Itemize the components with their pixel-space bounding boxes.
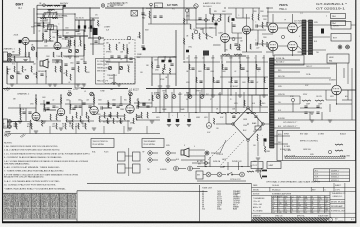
- title block left text: [253, 184, 341, 213]
- capacitor C31: [186, 50, 189, 53]
- capacitor C17: [52, 106, 55, 107]
- tube V1 preamp 7025: [22, 37, 29, 44]
- resistor R16: [149, 11, 150, 18]
- wire: [139, 106, 152, 108]
- resistor R62: [184, 18, 185, 24]
- blank panel left rule: [76, 191, 78, 222]
- wire plug center: [128, 148, 130, 176]
- wire: [268, 22, 297, 24]
- wire: [257, 118, 259, 126]
- wire: [292, 51, 294, 56]
- wire plate riser: [35, 95, 37, 113]
- wire: [224, 42, 226, 52]
- resistor R40: [56, 114, 57, 120]
- junction: [273, 63, 274, 64]
- junction: [93, 94, 94, 95]
- wire: [65, 103, 94, 105]
- wire bus: [3, 61, 35, 63]
- wire: [3, 61, 35, 63]
- parts list column rule: [12, 193, 14, 219]
- jack J4 input: [8, 125, 12, 129]
- resistor R19: [70, 104, 71, 109]
- wire: [274, 59, 300, 61]
- footswitch plug body 4: [133, 164, 141, 173]
- capacitor C43: [232, 25, 235, 26]
- wire: [257, 30, 259, 44]
- capacitor C16: [64, 64, 67, 65]
- wire: [252, 20, 254, 30]
- output transformer T1 primary: [302, 20, 306, 55]
- drawing number circle: [329, 218, 333, 222]
- potentiometer VR5 intensity: [119, 66, 122, 69]
- wire: [248, 94, 268, 96]
- resistor R22: [139, 32, 140, 38]
- ground: [80, 121, 84, 123]
- junction: [159, 112, 160, 113]
- resistor R10: [50, 35, 51, 41]
- wire: [69, 100, 71, 114]
- resistor R101: [14, 66, 15, 72]
- wire: [224, 14, 226, 34]
- wire: [49, 9, 51, 30]
- wire: [258, 43, 266, 45]
- resistor R1: [43, 22, 44, 28]
- wire to OT: [298, 25, 303, 28]
- ground: [53, 84, 57, 86]
- wire: [235, 8, 237, 18]
- wire: [36, 60, 38, 84]
- wire: [246, 34, 248, 52]
- wire: [209, 8, 211, 14]
- resistor R52: [117, 112, 118, 118]
- wire: [152, 106, 268, 108]
- wire: [336, 95, 338, 104]
- capacitor C19: [44, 108, 45, 111]
- wire: [226, 61, 268, 63]
- node G: [237, 47, 240, 50]
- wire cap leg: [90, 20, 92, 32]
- title block signature row: [253, 214, 328, 217]
- resistor R81: [265, 146, 266, 152]
- capacitor C17: [76, 62, 79, 63]
- junction: [195, 7, 196, 8]
- wire ground drop: [146, 126, 148, 134]
- wire: [262, 33, 273, 35]
- resistor R4 grid: [14, 56, 15, 61]
- ground: [187, 95, 191, 97]
- capacitor C30 filter: [187, 119, 190, 122]
- wire: [274, 111, 310, 113]
- wire: [231, 22, 233, 33]
- wire: [239, 55, 241, 95]
- parts list bottom rule: [3, 218, 77, 220]
- wire: [103, 107, 112, 109]
- capacitor C26: [46, 108, 49, 109]
- wire: [252, 8, 254, 14]
- capacitor C12: [143, 48, 146, 50]
- junction: [60, 94, 61, 95]
- resistor R26: [7, 68, 8, 74]
- wire: [52, 59, 62, 61]
- ground: [82, 84, 86, 86]
- junction: [49, 29, 50, 30]
- capacitor C37: [304, 106, 307, 107]
- capacitor C7: [191, 68, 194, 69]
- wire: [237, 33, 239, 47]
- wire: [202, 28, 204, 33]
- potentiometer VR8 volume 2: [68, 92, 72, 96]
- wire heater lead: [274, 95, 300, 97]
- wire: [272, 51, 274, 56]
- capacitor C48: [71, 68, 74, 69]
- junction: [35, 94, 36, 95]
- wire: [196, 27, 216, 29]
- wire: [243, 92, 245, 108]
- resistor R20: [123, 44, 124, 50]
- capacitor C13: [216, 81, 219, 82]
- resistor R103: [70, 74, 71, 80]
- wire: [187, 92, 189, 112]
- ground: [166, 86, 170, 88]
- resistor R29: [72, 123, 73, 129]
- AC receptacle node: [206, 172, 211, 177]
- resistor R98: [113, 118, 114, 123]
- footswitch plug body 2: [133, 152, 141, 161]
- resistor R64: [192, 33, 193, 39]
- section divider right: [146, 88, 268, 90]
- wire: [137, 98, 139, 107]
- wire: [52, 61, 62, 63]
- wire AC: [232, 174, 240, 176]
- wire: [16, 62, 18, 84]
- wire pot drop: [165, 89, 167, 95]
- pilot lamp cross: [102, 4, 104, 6]
- parts list column rule: [59, 193, 61, 219]
- potentiometer VR12: [164, 95, 168, 99]
- wire: [150, 5, 152, 24]
- wire: [60, 95, 62, 108]
- test point TP2: [232, 38, 235, 41]
- wire: [209, 157, 211, 167]
- capacitor C1: [44, 30, 47, 31]
- wire: [195, 55, 197, 95]
- wire rail x93: [92, 18, 94, 55]
- wire: [6, 66, 8, 84]
- wire pot drop: [173, 89, 175, 95]
- wire: [225, 112, 227, 124]
- power switch box: [196, 171, 203, 179]
- wire cap leg: [78, 20, 80, 32]
- resistor R35: [20, 114, 21, 120]
- wire: [179, 92, 181, 112]
- wire drop x143: [142, 8, 144, 26]
- wire: [212, 55, 214, 95]
- resistor R12: [196, 77, 197, 82]
- transformer chart row rule: [314, 174, 350, 176]
- indicator box B: [267, 162, 281, 169]
- transformer chart text: [315, 170, 339, 182]
- wire: [188, 8, 190, 20]
- wire plate V2: [57, 30, 59, 42]
- blank panel top rule: [77, 190, 208, 193]
- jack J1 input 1: [8, 53, 12, 57]
- resistor R54: [136, 114, 137, 120]
- capacitor C28: [88, 106, 91, 107]
- junction: [230, 94, 231, 95]
- ground: [150, 121, 154, 123]
- junction: [273, 83, 274, 84]
- junction: [74, 35, 75, 36]
- phono plug P5: [174, 166, 186, 171]
- tube V9 7027A power: [268, 23, 278, 33]
- tube V12 7027A power: [288, 41, 298, 51]
- wire bias rail top: [37, 4, 63, 6]
- resistor R33: [85, 66, 86, 72]
- wire lamp feed: [208, 113, 210, 123]
- capacitor C19: [112, 104, 115, 105]
- wire: [199, 92, 201, 112]
- resistor R79: [315, 100, 324, 101]
- resistor R32: [78, 66, 79, 72]
- wire: [167, 74, 169, 86]
- capacitor C32: [215, 23, 218, 26]
- resistor R38: [36, 98, 37, 104]
- wire: [36, 120, 61, 122]
- capacitor C4: [94, 41, 97, 42]
- potentiometer VR7: [25, 75, 29, 79]
- wire: [228, 7, 260, 9]
- resistor R70: [252, 14, 253, 20]
- resistor R95: [228, 17, 229, 22]
- resistor R11: [256, 64, 257, 69]
- wire: [42, 33, 44, 41]
- wire: [258, 25, 266, 27]
- footswitch plug body 1: [118, 152, 126, 161]
- resistor R69: [239, 44, 240, 50]
- wire voice coil: [189, 155, 205, 157]
- wire: [257, 162, 259, 170]
- capacitor C8: [206, 68, 209, 69]
- ground: [211, 95, 215, 97]
- ground: [92, 128, 96, 130]
- tube V10 7027A power: [288, 23, 298, 33]
- wire: [8, 121, 30, 123]
- wire: [329, 104, 331, 112]
- border frame right: [355, 0, 357, 223]
- capacitor C6: [141, 13, 144, 14]
- resistor R56: [141, 112, 142, 118]
- wire: [247, 55, 249, 95]
- wire: [269, 112, 271, 124]
- capacitor C9: [117, 56, 120, 57]
- wire: [292, 14, 294, 23]
- wire: [221, 55, 223, 95]
- node diamond bottom: [247, 139, 250, 142]
- parts list column rule: [31, 193, 33, 219]
- tube V11 7027A power: [268, 41, 278, 51]
- resistor R58 dropping: [216, 113, 226, 114]
- resistor R80 bias: [257, 134, 258, 141]
- wire: [56, 26, 58, 42]
- junction: [241, 166, 242, 167]
- capacitor C41: [234, 44, 237, 45]
- resistor R50: [104, 112, 105, 118]
- junction: [129, 94, 130, 95]
- capacitor C21: [74, 106, 77, 107]
- wire: [247, 141, 249, 152]
- wire: [134, 102, 152, 104]
- wire ground drop: [49, 126, 51, 134]
- wire B+ bus: [152, 112, 268, 114]
- wire: [255, 170, 262, 172]
- wire: [337, 103, 353, 105]
- wire: [155, 107, 157, 112]
- capacitor C9: [224, 68, 227, 69]
- wire: [204, 155, 206, 167]
- capacitor C2: [58, 36, 61, 37]
- capacitor C36: [321, 29, 324, 34]
- wire: [242, 8, 244, 18]
- AC receptacle node 2: [217, 172, 222, 177]
- wire: [106, 61, 133, 63]
- speaker SP1 main: [181, 148, 189, 157]
- ground: [106, 121, 110, 123]
- capacitor C27: [72, 108, 75, 109]
- wire: [292, 102, 294, 112]
- test point TP1: [127, 36, 131, 40]
- wire: [157, 57, 159, 66]
- wire: [203, 55, 205, 95]
- capacitor C30: [146, 106, 149, 107]
- wire: [7, 56, 30, 58]
- wire: [107, 100, 109, 108]
- wire: [151, 92, 153, 107]
- wire: [7, 83, 85, 85]
- capacitor C16: [28, 112, 31, 113]
- wire: [79, 36, 81, 40]
- junction: [255, 61, 256, 62]
- resistor R18: [109, 44, 110, 50]
- capacitor C24: [316, 112, 319, 113]
- wire: [235, 92, 237, 112]
- RCA plug P3: [166, 151, 176, 155]
- wire plug link: [125, 155, 133, 157]
- wire: [186, 12, 188, 24]
- jack J2 input 2: [8, 58, 12, 62]
- wire: [220, 76, 268, 78]
- ground: [187, 125, 191, 127]
- resistor R55: [130, 97, 131, 103]
- ground: [55, 60, 59, 62]
- resistor R42: [66, 116, 67, 122]
- wire: [278, 45, 288, 47]
- component box: [131, 11, 138, 17]
- wire HV lead: [274, 77, 331, 79]
- resistor R25: [16, 123, 17, 129]
- wire: [236, 17, 250, 19]
- resistor R83: [335, 150, 343, 151]
- RCA plug P1: [148, 151, 158, 155]
- junction: [205, 166, 206, 167]
- parts list top rule: [3, 192, 77, 194]
- fuse F1 symbol: [194, 4, 198, 8]
- wire: [274, 63, 336, 65]
- capacitor C47: [40, 74, 43, 75]
- ground: [262, 95, 266, 97]
- resistor R74: [262, 22, 263, 28]
- wire: [29, 40, 43, 42]
- resistor R51: [110, 112, 111, 118]
- resistor R2: [54, 5, 60, 6]
- fuse squiggle: [194, 5, 197, 7]
- resistor R18: [44, 104, 45, 109]
- wire: [274, 83, 331, 85]
- resistor R57: [147, 112, 148, 118]
- resistor R71: [258, 14, 259, 20]
- node diamond left: [232, 123, 235, 126]
- wire: [205, 14, 207, 33]
- transformer chart box: [314, 169, 350, 182]
- capacitor C10: [124, 56, 127, 57]
- wire: [215, 20, 217, 28]
- diamond matching network: [233, 108, 263, 140]
- junction: [336, 103, 337, 104]
- resistor R91: [52, 18, 58, 19]
- potentiometer VR13: [172, 95, 176, 99]
- resistor R67: [213, 14, 214, 20]
- wire: [219, 92, 221, 112]
- wire to fuse: [140, 7, 196, 9]
- diode D1 box: [255, 126, 261, 130]
- receptacle cross 2: [218, 173, 221, 176]
- pilot lamp PL1: [101, 4, 105, 8]
- wire cathode: [25, 45, 27, 52]
- wire: [89, 28, 91, 38]
- ground: [18, 121, 22, 123]
- wire speaker lead: [313, 24, 331, 26]
- junction: [239, 61, 240, 62]
- capacitor C1: [63, 5, 66, 7]
- capacitor C5: [129, 58, 132, 59]
- capacitor C13: [156, 66, 159, 67]
- wire left rail vertical: [36, 5, 38, 60]
- wire AC bus top: [197, 166, 250, 168]
- wire bias rail lower: [37, 8, 63, 10]
- resistor R6: [164, 64, 165, 69]
- wire ground drop: [75, 126, 77, 134]
- wire: [220, 55, 246, 57]
- wire heater lead: [274, 103, 300, 105]
- ground: [117, 84, 121, 86]
- wire: [49, 30, 51, 35]
- capacitor C42: [198, 18, 201, 19]
- junction: [183, 61, 184, 62]
- wire: [196, 23, 216, 25]
- pilot lamp filament: [208, 126, 211, 128]
- wire: [98, 39, 100, 44]
- resistor R82: [335, 144, 343, 145]
- capacitor C5: [70, 36, 73, 37]
- wire: [272, 14, 274, 23]
- dashed link: [208, 132, 236, 160]
- wire: [351, 24, 356, 26]
- wire: [65, 36, 67, 40]
- resistor R7: [189, 64, 190, 69]
- wire speaker lead: [313, 36, 331, 38]
- wire: [298, 22, 303, 24]
- resistor R100: [133, 118, 134, 123]
- parts list column rule: [21, 193, 23, 219]
